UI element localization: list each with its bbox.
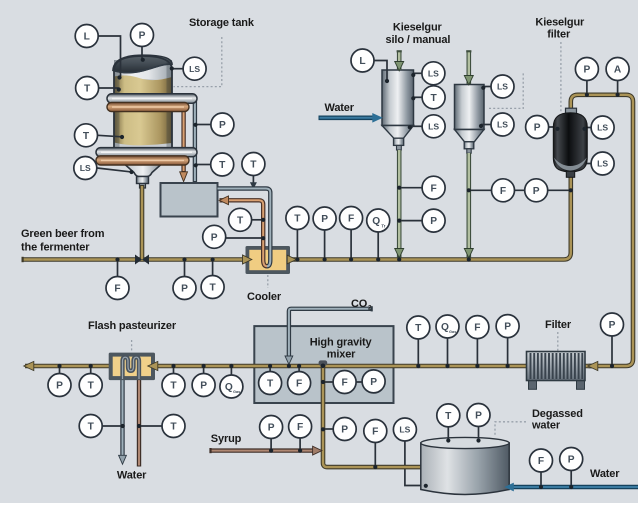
instrument Q1 QTr — [367, 209, 390, 232]
svg-text:Water: Water — [590, 468, 620, 480]
storage tank upper silver band — [114, 60, 172, 80]
node silo1 L tap — [385, 79, 389, 83]
svg-text:P: P — [609, 320, 616, 331]
wire: P to steel pipe — [196, 124, 211, 126]
node storage tank cone tap — [129, 170, 133, 174]
arrow: kieselgur into silo 1 — [395, 62, 404, 71]
instrument P9 P — [526, 116, 549, 139]
svg-text:T: T — [170, 381, 177, 392]
storage tank outlet nozzle — [137, 177, 149, 184]
storage tank bottom head and cone — [114, 149, 172, 177]
wire: T drop to steel pipe run — [252, 176, 254, 183]
instrument F8 F — [289, 415, 312, 438]
label CO2 — [351, 298, 372, 311]
svg-text:P: P — [341, 425, 348, 436]
node kieselgur filter right tap — [582, 127, 586, 131]
node storage tank LS tap — [170, 66, 174, 70]
arrow: green beer into cooler — [243, 255, 252, 264]
pipe: kieselgur line 2 top cap — [466, 50, 471, 52]
steel pipe from coil to outlet box — [193, 96, 197, 182]
pipe: syrup line end cap — [209, 448, 211, 453]
svg-text:P: P — [56, 381, 63, 392]
svg-text:P: P — [430, 216, 437, 227]
high gravity mixer box — [254, 326, 393, 403]
node beer line T tap 2 — [295, 257, 299, 261]
storage tank beer liquid — [114, 76, 172, 146]
wire: P to water line — [570, 471, 572, 487]
dashed link: cooler label — [267, 275, 269, 288]
instrument LS8 LS — [591, 152, 614, 175]
node return pipe T tap — [137, 424, 141, 428]
arrow: kieselgur line 1 into beer line — [395, 249, 404, 258]
svg-text:P: P — [584, 65, 591, 76]
instrument F10 F — [530, 449, 553, 472]
svg-text:P: P — [568, 455, 575, 466]
coil lower steel tube — [96, 148, 197, 157]
wire: P to copper riser — [226, 237, 263, 239]
wire: T above green beer line — [296, 230, 298, 260]
svg-text:T: T — [83, 131, 90, 142]
wire: T below pasteurized line — [90, 366, 92, 373]
pipe: pasteurizer water outlet — [120, 378, 124, 458]
instrument T15 T — [437, 404, 460, 427]
instrument F4 F — [492, 179, 515, 202]
instrument P3 P — [203, 225, 226, 248]
wire: mixer F and P to outlet pipe — [323, 381, 373, 383]
pipe: CO2 feed — [289, 309, 372, 357]
wire: silo 2 line to filter inlet with F P — [469, 189, 571, 191]
svg-text:mixer: mixer — [327, 348, 356, 360]
svg-text:T: T — [219, 160, 226, 171]
dashed link: filter label — [557, 332, 559, 351]
arrow: syrup into mixer outlet pipe — [313, 446, 322, 455]
svg-text:LS: LS — [428, 121, 439, 131]
svg-text:P: P — [181, 284, 188, 295]
svg-text:P: P — [534, 123, 541, 134]
label Degassed water — [531, 408, 583, 432]
arrow: kieselgur line 2 into beer line — [464, 249, 473, 258]
valve on storage tank outlet — [135, 255, 149, 265]
node silo1 T tap — [411, 96, 415, 100]
kieselgur silo 2 body — [455, 85, 485, 154]
node outlet pipe F tap — [321, 380, 325, 384]
storage tank liquid backdrop — [114, 79, 172, 149]
kieselgur silo 1 body — [382, 70, 414, 150]
coil lower copper tube — [96, 156, 189, 165]
wire: P right of pasteurizer — [203, 366, 205, 373]
pipe: kieselgur feed line 1 lower — [397, 150, 402, 258]
dashed link: flash pasteurizer label — [131, 340, 133, 352]
wire: P above green beer line — [324, 230, 326, 259]
wire: P to degassed tank top — [478, 427, 480, 440]
storage tank liquid surface V line — [113, 64, 172, 73]
wire: L to storage tank — [99, 36, 121, 76]
arrow: pasteurizer water outlet down — [119, 455, 127, 464]
node storage tank T tap lower — [120, 135, 124, 139]
instrument P6 P — [422, 209, 445, 232]
instrument F2 F — [340, 207, 363, 230]
arrow: kieselgur into silo 2 — [464, 76, 473, 85]
svg-text:LS: LS — [497, 120, 508, 130]
wire: T above filtered beer line — [417, 339, 419, 366]
node storage tank top — [141, 58, 145, 62]
instrument L1 L — [75, 25, 98, 48]
wire: P below green beer line — [184, 260, 186, 277]
instrument T8 T — [422, 86, 445, 109]
node silo2 LS tap — [481, 86, 485, 90]
pipe: green beer line end cap — [22, 257, 24, 262]
instrument P13 P — [496, 315, 519, 338]
node degassed feed F tap — [373, 465, 377, 469]
junction fitting at mixer outlet — [319, 360, 328, 368]
pipe: kieselgur feed line 2 lower — [466, 153, 471, 258]
instrument T13 T — [259, 372, 282, 395]
wire: P to filter outlet pipe — [586, 81, 588, 95]
wire: T to steel pipe — [197, 164, 211, 166]
svg-text:T: T — [170, 422, 177, 433]
wire: Q above green beer line — [377, 232, 379, 259]
svg-text:T: T — [267, 379, 274, 390]
instrument P14 P — [601, 313, 624, 336]
svg-text:Water: Water — [117, 470, 147, 482]
instrument LS6 LS — [491, 113, 514, 136]
instrument LS4 LS — [422, 115, 445, 138]
svg-text:P: P — [268, 423, 275, 434]
instrument T6 T — [201, 276, 224, 299]
svg-text:T: T — [415, 323, 422, 334]
instrument P12 P — [362, 370, 385, 393]
svg-text:F: F — [297, 422, 303, 433]
wire: F below green beer line — [117, 260, 119, 277]
svg-text:P: P — [139, 31, 146, 42]
svg-text:P: P — [200, 381, 207, 392]
wire: LS to storage tank cone — [97, 168, 130, 172]
label Green beer from the fermenter — [21, 228, 105, 254]
storage tank outline — [114, 56, 172, 149]
node line2 P tap 5 — [610, 364, 614, 368]
instrument T1 T — [76, 77, 99, 100]
node line2 P tap 4 — [506, 364, 510, 368]
svg-text:Syrup: Syrup — [211, 433, 242, 445]
copper arrow into outlet box top — [180, 172, 188, 182]
dashed link: storage tank label — [174, 37, 222, 87]
pipe: green beer main line left segment — [23, 257, 246, 262]
svg-text:F: F — [500, 186, 506, 197]
pipe: filtered beer main line — [25, 364, 597, 369]
pipe: water feed to silo 1 — [319, 116, 374, 121]
node syrup F tap — [298, 449, 302, 453]
wire: mixer T to line — [269, 366, 271, 371]
coil upper copper tube — [107, 102, 189, 111]
wire: mixer F to line — [298, 366, 300, 371]
instrument P8 P — [575, 58, 598, 81]
wire: Q right of pasteurizer — [230, 366, 232, 375]
instrument P15 P — [260, 416, 283, 439]
svg-text:Degassed: Degassed — [532, 408, 583, 420]
instrument F1 F — [106, 277, 129, 300]
node line2 T tap 2 — [171, 364, 175, 368]
arrow: T drop into steel pipe — [250, 182, 257, 189]
wire: P above filtered beer line — [507, 338, 509, 366]
instrument T2 T — [75, 124, 98, 147]
pipe: kieselgur filter outlet loop — [571, 95, 633, 366]
svg-text:silo / manual: silo / manual — [386, 34, 451, 46]
wire: T below green beer line — [212, 260, 214, 276]
svg-text:LS: LS — [497, 82, 508, 92]
degassed water tank — [421, 437, 509, 494]
wire: T to storage tank upper — [99, 87, 119, 89]
svg-text:P: P — [533, 186, 540, 197]
node beer line kieselgur 1 junction — [397, 257, 401, 261]
wire: F to kieselgur line 1 — [399, 187, 422, 189]
node kieselgur filter left tap — [555, 127, 559, 131]
instrument T10 T — [162, 374, 185, 397]
storage tank dome — [113, 55, 172, 73]
wire: LS to silo 2 cone — [481, 124, 491, 126]
node degassed tank T tap — [446, 438, 450, 442]
wire: Q above filtered beer line — [447, 338, 449, 366]
svg-text:T: T — [209, 283, 216, 294]
arrow: pasteurized beer line left end — [24, 361, 34, 370]
node outlet pipe P tap — [321, 427, 325, 431]
svg-text:Storage tank: Storage tank — [189, 17, 255, 29]
instrument P16b P — [467, 404, 490, 427]
svg-text:F: F — [474, 323, 480, 334]
node copper riser P tap — [261, 236, 265, 240]
pipe: water feed to degassed tank — [513, 485, 638, 490]
node copper riser T tap — [261, 218, 265, 222]
svg-text:filter: filter — [547, 29, 571, 41]
svg-text:Kieselgur: Kieselgur — [535, 17, 585, 29]
node syrup P tap — [269, 449, 273, 453]
instrument LS1 LS — [183, 57, 206, 80]
svg-text:water: water — [531, 420, 561, 432]
instrument F3 F — [422, 176, 445, 199]
svg-text:F: F — [348, 214, 354, 225]
instrument T3 T — [211, 153, 234, 176]
instrument Q2 QGas — [220, 375, 243, 398]
svg-text:LS: LS — [399, 425, 410, 435]
pipe: storage tank outlet drop — [140, 185, 145, 260]
node line2 Q tap 2 — [445, 364, 449, 368]
node steel pipe T tap — [194, 163, 198, 167]
node beer line P tap 2 — [323, 257, 327, 261]
wire: T to pasteurizer return pipe — [139, 425, 162, 427]
instrument P11 P — [192, 374, 215, 397]
arrow: water into degassed tank — [504, 483, 514, 492]
svg-text:F: F — [430, 183, 436, 194]
node beer line F tap — [115, 257, 119, 261]
svg-text:P: P — [370, 377, 377, 388]
instrument T5 T — [229, 208, 252, 231]
svg-text:High gravity: High gravity — [310, 336, 373, 348]
pipe: pasteurizer water return — [137, 378, 141, 467]
svg-text:T: T — [294, 214, 301, 225]
node kieselgur line1 F tap — [397, 186, 401, 190]
node mixer F tap — [297, 364, 301, 368]
svg-text:A: A — [614, 65, 622, 76]
wire: L to silo 1 — [374, 61, 387, 80]
wire: T to silo 1 — [414, 96, 422, 98]
arrow: CO2 into mixer line — [285, 356, 293, 364]
svg-text:the fermenter: the fermenter — [21, 242, 90, 254]
node water pipe T tap — [121, 424, 125, 428]
node beer line F tap 2 — [349, 257, 353, 261]
node mixer T tap — [268, 364, 272, 368]
instrument A1 A — [606, 58, 629, 81]
svg-text:Gas: Gas — [233, 389, 240, 394]
svg-text:P: P — [504, 322, 511, 333]
arrow: copper into outlet box — [219, 196, 228, 205]
instrument P4 P — [173, 277, 196, 300]
svg-text:CO: CO — [351, 298, 368, 310]
wire: T to pasteurizer water pipe — [102, 425, 122, 427]
wire: LS to storage tank top right — [172, 68, 183, 70]
dashed link: degassed water label — [495, 422, 526, 437]
wire: LS to degassed water tank — [405, 441, 424, 485]
instrument P5 P — [313, 207, 336, 230]
node line2 T tap 4 — [416, 364, 420, 368]
node degassed tank P tap — [476, 438, 480, 442]
svg-text:LS: LS — [189, 64, 200, 74]
pipe: mixer outlet to degassed tank — [323, 366, 422, 467]
svg-text:L: L — [84, 32, 90, 43]
svg-text:LS: LS — [428, 68, 439, 78]
node water line F tap — [539, 485, 543, 489]
copper pipe from coil to outlet box — [181, 104, 185, 172]
instrument F7 F — [466, 316, 489, 339]
instrument F6 F — [333, 371, 356, 394]
wire: T to degassed tank top — [447, 427, 449, 440]
node silo2 cone LS tap — [479, 124, 483, 128]
svg-text:2: 2 — [368, 304, 372, 311]
svg-text:T: T — [237, 215, 244, 226]
wire: T to storage tank lower — [98, 135, 122, 137]
svg-text:T: T — [88, 381, 95, 392]
label Kieselgur silo / manual — [386, 22, 451, 47]
instrument T12 T — [162, 415, 185, 438]
node line2 P tap 3 — [202, 364, 206, 368]
svg-text:P: P — [321, 214, 328, 225]
node degassed tank LS tap — [424, 484, 428, 488]
instrument LS2 LS — [74, 157, 97, 180]
wire: F to syrup line — [299, 438, 301, 450]
filter (plate stack) — [527, 352, 586, 390]
node silo1 cone LS tap — [408, 125, 412, 129]
arrow: beer into pasteurizer — [148, 361, 158, 370]
pipe: kieselgur feed line 2 upper — [466, 52, 471, 85]
wire: P to storage tank top — [141, 47, 143, 59]
node beer line kieselgur 2 junction — [467, 257, 471, 261]
wire: LS to kieselgur filter right — [585, 127, 591, 129]
wire: T right of pasteurizer — [173, 366, 175, 373]
node beer line P tap — [182, 257, 186, 261]
svg-text:Kieselgur: Kieselgur — [393, 22, 443, 34]
node steel pipe P tap — [193, 123, 197, 127]
svg-text:P: P — [219, 120, 226, 131]
svg-text:Green beer from: Green beer from — [21, 228, 105, 240]
node water line P tap — [569, 485, 573, 489]
node filter inlet junction — [569, 188, 573, 192]
node silo1 LS tap — [411, 73, 415, 77]
instrument LS3 LS — [422, 62, 445, 85]
node line2 T tap — [89, 364, 93, 368]
node line2 F tap — [475, 364, 479, 368]
pipe: CO2 line end cap — [371, 306, 373, 311]
svg-text:Filter: Filter — [545, 319, 572, 331]
instrument T11 T — [79, 415, 102, 438]
instrument T4 T — [242, 153, 265, 176]
dashed link: kieselgur filter label — [560, 42, 562, 112]
arrow: water into silo 1 — [372, 113, 383, 123]
wire: P to mixer outlet pipe — [323, 428, 333, 430]
pipe: green beer line cooler to kieselgur filter riser — [290, 177, 571, 260]
wire: P to syrup line — [270, 439, 272, 451]
wire: P to kieselgur filter left — [525, 126, 556, 128]
svg-text:F: F — [538, 456, 544, 467]
svg-text:Water: Water — [325, 102, 355, 114]
svg-text:Gas: Gas — [449, 329, 456, 334]
wire: P below pasteurized line — [59, 366, 61, 373]
label High gravity mixer — [310, 336, 373, 360]
svg-text:LS: LS — [597, 123, 608, 133]
svg-text:F: F — [114, 284, 120, 295]
wire: F to degassed water feed — [374, 443, 376, 467]
wire: LS to silo 1 top — [414, 72, 422, 74]
arrow: green beer out of cooler — [287, 255, 296, 264]
node filter outlet A tap — [616, 93, 620, 97]
arrow: beer into filter — [588, 361, 598, 370]
pipe: copper run from outlet box to cooler U — [220, 200, 268, 266]
instrument P16 P — [333, 418, 356, 441]
pipe: kieselgur line 1 top cap — [397, 50, 402, 52]
label Kieselgur filter — [535, 17, 585, 41]
svg-text:T: T — [250, 160, 257, 171]
instrument P10 P — [48, 374, 71, 397]
storage tank side shading — [114, 60, 120, 149]
wire: T to copper riser — [252, 219, 263, 221]
flash pasteurizer — [109, 353, 155, 381]
instrument T7 T — [286, 207, 309, 230]
wire: F above green beer line — [350, 230, 352, 260]
node kieselgur line1 P tap — [397, 219, 401, 223]
instrument T14 T — [407, 316, 430, 339]
node beer line T tap — [211, 257, 215, 261]
instrument P2 P — [211, 113, 234, 136]
node storage tank L tap — [117, 75, 121, 79]
cooler — [246, 246, 291, 274]
node line2 Q tap — [229, 364, 233, 368]
node kieselgur line2 junction — [467, 188, 471, 192]
svg-text:P: P — [211, 232, 218, 243]
svg-text:F: F — [372, 427, 378, 438]
instrument LS7 LS — [591, 116, 614, 139]
svg-text:L: L — [359, 56, 365, 67]
svg-text:F: F — [341, 378, 347, 389]
svg-text:T: T — [84, 84, 91, 95]
svg-text:Q: Q — [372, 216, 380, 227]
svg-text:Q: Q — [441, 322, 449, 333]
instrument F9 F — [364, 420, 387, 443]
node beer line Q tap — [376, 257, 380, 261]
instrument F5 F — [288, 372, 311, 395]
instrument P7 P — [525, 179, 548, 202]
pipe: syrup feed — [211, 448, 314, 452]
wire: LS to silo 2 top — [484, 86, 491, 88]
kieselgur filter vessel — [553, 108, 587, 177]
dashed link: kieselgur silo 2 — [487, 73, 523, 108]
node storage tank T tap upper — [117, 87, 121, 91]
